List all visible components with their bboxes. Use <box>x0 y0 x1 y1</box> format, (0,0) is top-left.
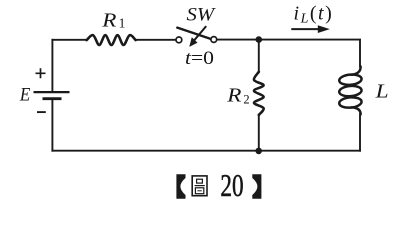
resistor R2 <box>254 72 264 115</box>
battery E top plate (long) <box>34 91 70 93</box>
switch arrowhead <box>190 38 198 47</box>
svg-text:SW: SW <box>187 5 216 26</box>
wire R2 branch upper <box>258 40 260 72</box>
current arrowhead <box>318 25 330 33</box>
svg-text:t=0: t=0 <box>185 48 214 69</box>
wire bottom rail <box>52 150 360 152</box>
svg-text:1: 1 <box>119 16 126 31</box>
battery minus sign <box>37 111 46 113</box>
node dot top <box>255 36 262 43</box>
switch right contact circle <box>211 37 217 43</box>
svg-text:R: R <box>101 9 116 31</box>
wire left rail lower (battery to bottom) <box>51 100 53 151</box>
svg-text:E: E <box>19 84 30 105</box>
inductor L coil <box>339 67 362 115</box>
svg-text:20: 20 <box>220 168 243 203</box>
switch SW blade <box>177 28 211 39</box>
wire left rail upper (corner to battery) <box>51 40 53 91</box>
caption character tu (figure) <box>192 176 207 196</box>
resistor R1 <box>87 35 136 45</box>
wire top rail middle segment (resistor to switch) <box>136 39 176 41</box>
wire right rail lower (inductor to bottom) <box>359 115 361 151</box>
svg-text:L: L <box>374 81 388 103</box>
wire R2 branch lower <box>258 115 260 151</box>
caption right bracket <box>252 174 261 199</box>
caption left bracket <box>176 174 185 199</box>
switch left contact circle <box>176 37 182 43</box>
wire right rail upper (corner to inductor) <box>359 40 361 67</box>
wire top rail right segment (switch to right corner) <box>217 39 360 41</box>
svg-text:2: 2 <box>243 93 249 107</box>
battery E bottom plate (short) <box>43 97 62 100</box>
svg-text:iL(t): iL(t) <box>294 2 334 26</box>
node dot bottom <box>255 148 262 155</box>
switch SW motion arrow <box>193 26 207 42</box>
battery plus sign <box>36 68 46 78</box>
current arrow iL(t) <box>291 28 319 30</box>
wire top rail left segment <box>52 39 86 41</box>
svg-text:R: R <box>226 84 241 106</box>
